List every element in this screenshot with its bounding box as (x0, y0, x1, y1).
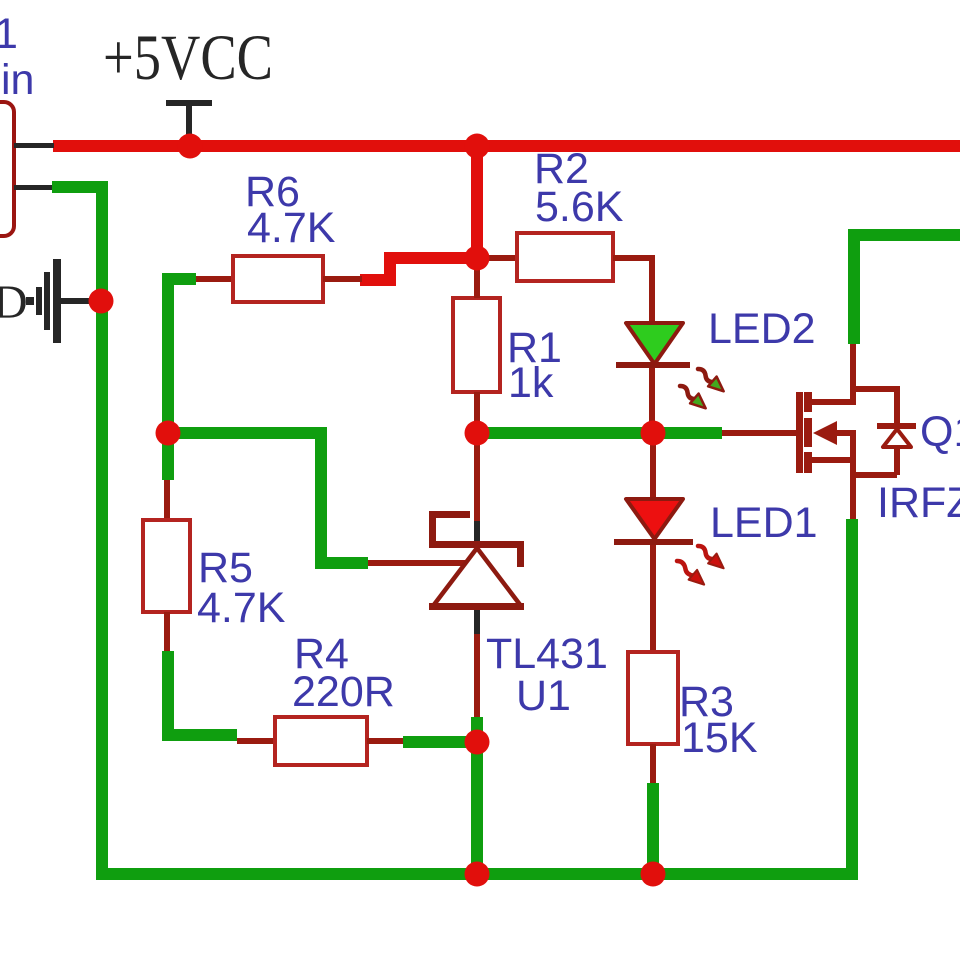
ground symbol bars (26, 259, 61, 343)
resistor R4 right lead (367, 738, 403, 744)
label R4 value 220R (292, 668, 395, 716)
LED1 cathode bar (614, 539, 693, 545)
junction dot ground tap (89, 289, 114, 314)
junction dot node R4/anode (465, 730, 490, 755)
wire vertical drop from VCC rail to node R2/R6 (471, 146, 483, 264)
resistor R5 body (143, 520, 190, 612)
wire jog from R6 right lead to node (thick red with step) (360, 252, 479, 286)
resistor R1 bottom lead (474, 392, 480, 433)
junction dot node R6/R2/R1 (465, 246, 490, 271)
wire green R5 top (162, 433, 174, 480)
label R6 value 4.7K (247, 204, 336, 252)
svg-text:TL431: TL431 (486, 630, 608, 678)
label U1 (516, 672, 571, 720)
resistor R6 left lead (196, 276, 233, 282)
svg-text:1k: 1k (508, 359, 554, 407)
label R1 value 1k (508, 359, 554, 407)
resistor R1 body (453, 298, 500, 392)
op-amp U1 TL431 cathode bar with hooks (429, 511, 524, 567)
label R5 value 4.7K (197, 584, 286, 632)
label R3 (679, 678, 734, 726)
junction dot node top of R1 branch (465, 134, 490, 159)
label R4 (294, 630, 349, 678)
label IRFZ part number (877, 479, 960, 527)
LED2 light arrow upper (694, 364, 728, 396)
label R6 (245, 168, 300, 216)
label LED1 (710, 499, 818, 547)
op-amp U1 TL431 anode lead (471, 610, 483, 742)
op-amp U1 TL431 anode bar (429, 603, 524, 610)
resistor R2 left lead (483, 255, 517, 261)
svg-text:U1: U1 (516, 672, 571, 720)
transistor Q1 channel dashes (804, 392, 812, 473)
LED2 light arrow lower (676, 381, 710, 413)
wire green bottom rail (96, 868, 858, 880)
LED1 triangle (626, 499, 683, 539)
junction dot at +5VCC tap (178, 134, 203, 159)
ground GND label D (0, 276, 28, 329)
power flag bar symbol (166, 100, 212, 142)
wire green Q1 source down to bottom rail (846, 519, 858, 880)
svg-text:D: D (0, 276, 28, 329)
resistor R4 left lead (237, 738, 275, 744)
resistor R6 right lead (323, 276, 362, 282)
LED2 cathode bar (616, 362, 690, 368)
label LED2 (708, 305, 816, 353)
transistor Q1 gate bar (796, 392, 803, 473)
power flag +5VCC label (103, 22, 273, 94)
label R2 (534, 145, 589, 193)
resistor R6 body (233, 256, 323, 302)
svg-text:1: 1 (0, 10, 18, 58)
label R1 (507, 324, 562, 372)
label Q1 (920, 408, 960, 456)
wire green middle net R1/TL431 to LED node (477, 427, 722, 439)
resistor R3 top lead (650, 545, 656, 652)
op-amp U1 TL431 triangle (433, 548, 521, 606)
junction dot bottom rail right (641, 862, 666, 887)
junction dot node LED2/LED1/gate (641, 421, 666, 446)
wire green top right to Q1 drain (848, 229, 960, 344)
svg-text:LED2: LED2 (708, 305, 816, 353)
wire green REF net vertical (315, 427, 327, 569)
LED2 triangle (626, 323, 683, 364)
resistor R3 body (628, 652, 678, 744)
junction dot bottom rail left (465, 862, 490, 887)
transistor Q1 drain lead (812, 344, 856, 405)
wire green REF net horizontal from node A (162, 427, 327, 439)
wire green from pin 2 (52, 181, 108, 193)
wire gate lead to Q1 (722, 430, 797, 436)
wire green node R4 down to bottom rail (471, 742, 483, 874)
pin 1 lead of connector (14, 143, 54, 148)
svg-text:4.7K: 4.7K (247, 204, 336, 252)
svg-text:220R: 220R (292, 668, 395, 716)
label pin name in (1, 56, 34, 104)
pin 2 lead of connector (14, 185, 52, 190)
svg-text:Q1: Q1 (920, 408, 960, 456)
svg-text:5.6K: 5.6K (535, 183, 624, 231)
label R3 value 15K (681, 714, 758, 762)
svg-text:+5VCC: +5VCC (103, 22, 273, 94)
LED2 cathode lead (649, 368, 655, 433)
wire VCC rail (53, 140, 960, 152)
resistor R2 right lead (613, 255, 655, 323)
LED1 light arrow lower (673, 556, 709, 589)
label TL431 (486, 630, 608, 678)
transistor Q1 body arrow (813, 421, 856, 445)
wire green vertical from R6 down to node A (162, 273, 174, 439)
LED2 anode lead (649, 281, 655, 323)
LED1 light arrow upper (694, 541, 728, 573)
junction dot node R1/TL431 (465, 421, 490, 446)
label R2 value 5.6K (535, 183, 624, 231)
wire green below R5 (162, 651, 237, 741)
junction dot node A (R6/R5/REF) (156, 421, 181, 446)
svg-text:15K: 15K (681, 714, 758, 762)
svg-text:in: in (1, 56, 34, 104)
svg-text:LED1: LED1 (710, 499, 818, 547)
wire green REF net lower horizontal (315, 557, 368, 569)
wire green left vertical bus (96, 181, 108, 880)
transistor Q1 body diode branch (853, 386, 916, 478)
LED1 anode lead (650, 439, 656, 499)
wire green stub left of R6 (162, 273, 196, 285)
transistor Q1 source connection (812, 433, 856, 519)
label R5 (198, 544, 253, 592)
wire REF lead to TL431 (368, 560, 468, 566)
wire green R4 to node (403, 736, 477, 748)
resistor R5 top lead (164, 480, 170, 520)
svg-text:4.7K: 4.7K (197, 584, 286, 632)
connector J1 body (0, 102, 14, 236)
ground lead wire (61, 298, 101, 304)
resistor R4 body (275, 717, 367, 765)
label pin number 1 (0, 10, 18, 58)
resistor R5 bottom lead (164, 612, 170, 651)
resistor R2 body (517, 233, 613, 281)
resistor R3 bottom lead (647, 744, 659, 874)
resistor R1 top lead (474, 258, 480, 298)
op-amp U1 TL431 cathode lead (474, 433, 480, 541)
svg-text:IRFZ4: IRFZ4 (877, 479, 960, 527)
